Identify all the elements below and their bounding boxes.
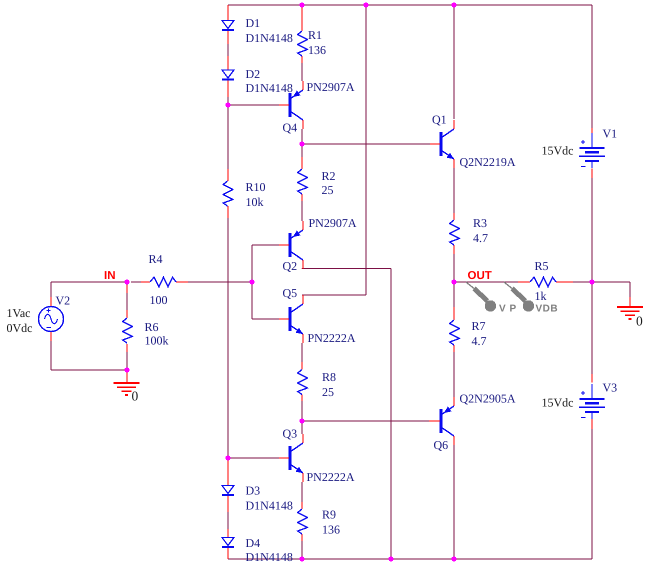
wire R5 to right rail node [573, 281, 592, 283]
wire right ground pin [629, 297, 631, 307]
wire R2 top pin [301, 157, 303, 169]
svg-text:136: 136 [322, 523, 340, 537]
svg-text:D1N4148: D1N4148 [246, 550, 293, 564]
wire Q6 base pin lead [429, 420, 440, 422]
wire R8 top pin [301, 362, 303, 370]
svg-text:R6: R6 [145, 320, 159, 334]
svg-text:Q3: Q3 [283, 427, 298, 441]
wire R1 to Q4 emitter [301, 63, 303, 81]
wire right column V1 top pin [591, 128, 593, 134]
wire R4 left pin [141, 281, 150, 283]
wire Q5 emitter to R8 [301, 343, 303, 362]
wire D3-D4 middle segment [227, 512, 229, 529]
wire R7 to Q6 emitter [453, 352, 455, 397]
svg-text:Q2N2219A: Q2N2219A [460, 155, 516, 169]
svg-text:R9: R9 [322, 508, 336, 522]
diode D2 [222, 70, 234, 80]
wire top rail to Q1 collector [453, 5, 455, 119]
svg-text:R8: R8 [322, 370, 336, 384]
wire bottom -15V rail [228, 558, 592, 560]
wire D2 to node A [227, 97, 229, 105]
voltage probe V marker at OUT [466, 282, 496, 312]
svg-text:4.7: 4.7 [472, 334, 487, 348]
svg-text:D1: D1 [246, 16, 261, 30]
svg-text:R2: R2 [322, 169, 336, 183]
ground symbol right (0) [617, 307, 643, 319]
voltage dB probe marker at OUT [504, 282, 534, 312]
wire right column V1 top lead [591, 5, 593, 128]
wire D4 cathode to bottom rail [227, 548, 229, 560]
svg-text:0: 0 [132, 389, 139, 404]
resistor R5 [530, 277, 556, 287]
ground symbol left (0) [114, 383, 140, 395]
wire x366 column up to top rail [365, 5, 367, 295]
svg-text:0: 0 [636, 314, 643, 329]
wire D4 anode pin [227, 529, 229, 538]
resistor R9 [298, 509, 308, 534]
wire R3 to OUT node [453, 254, 455, 282]
wire R9 bottom pin [301, 534, 303, 541]
svg-text:Q2: Q2 [283, 259, 298, 273]
svg-text:PN2907A: PN2907A [309, 216, 357, 230]
diode D1 [222, 21, 234, 31]
DC source V3 battery [579, 384, 605, 419]
svg-text:15Vdc: 15Vdc [542, 396, 574, 410]
wire right column between V1 and node [591, 178, 593, 282]
wire base bus Q2 to Q5 [251, 245, 253, 319]
diode D4 [222, 538, 234, 548]
svg-text:V1: V1 [603, 127, 618, 141]
junction top rail / x366 wire [363, 2, 368, 7]
svg-text:10k: 10k [246, 195, 264, 209]
svg-text:V3: V3 [603, 381, 618, 395]
wire OUT node to R5 [454, 281, 518, 283]
svg-text:1k: 1k [535, 289, 547, 303]
transistor Q4 PN2907A [279, 81, 303, 129]
svg-text:D1N4148: D1N4148 [246, 499, 293, 513]
wire D3 cathode pin [227, 495, 229, 512]
svg-text:R3: R3 [473, 216, 487, 230]
wire R7 top pin [453, 307, 455, 320]
wire R4 to base bus node [188, 281, 252, 283]
junction node B diode bias lower [225, 455, 230, 460]
transistor Q6 Q2N2905A [430, 397, 454, 445]
wire node C to Q1 base [302, 143, 430, 145]
wire node A down to R10 [227, 105, 229, 169]
wire Q6 collector to bottom rail [453, 445, 455, 559]
svg-text:IN: IN [104, 270, 116, 282]
wire V2 top pin [50, 297, 52, 307]
transistor Q3 PN2222A [279, 434, 303, 482]
AC source V2 [39, 307, 64, 332]
wire R1 bottom pin [301, 56, 303, 63]
wire node to right ground stub [592, 281, 630, 283]
junction node C Q4 collector / Q1 base [299, 141, 304, 146]
wire right column V3 bottom pin [591, 419, 593, 429]
svg-text:0Vdc: 0Vdc [7, 321, 33, 335]
wire left column top segment (to D1 anode) [227, 5, 229, 21]
wire right column V3 top pin [591, 374, 593, 383]
wire R1 top pin from top rail [301, 5, 303, 31]
wire R8 to node D [301, 401, 303, 421]
wire IN node to R4 [131, 281, 141, 283]
svg-text:D2: D2 [246, 67, 261, 81]
junction IN node [124, 279, 129, 284]
wire R5 left pin [518, 281, 530, 283]
svg-text:PN2222A: PN2222A [307, 470, 355, 484]
svg-text:1Vac: 1Vac [7, 306, 31, 320]
wire node D to Q3 collector [301, 421, 303, 434]
wire D2 cathode pin [227, 80, 229, 98]
transistor Q1 Q2N2219A [430, 120, 454, 168]
wire R7 bottom pin [453, 345, 455, 352]
wire R2 bottom pin [301, 194, 303, 201]
wire top +15V rail [228, 4, 592, 6]
wire Q2 base from bus [252, 244, 279, 246]
wire R10 top pin [227, 169, 229, 181]
svg-text:136: 136 [308, 43, 326, 57]
svg-text:Q4: Q4 [283, 121, 298, 135]
wire right column V3 to bottom rail [591, 429, 593, 559]
wire x390 column down to bottom rail [390, 269, 392, 560]
wire V2 top to IN rail [50, 282, 52, 297]
junction top rail / Q1 collector [451, 2, 456, 7]
wire node D to Q6 base [302, 420, 429, 422]
svg-text:Q2N2905A: Q2N2905A [460, 392, 516, 406]
wire node A to Q4 base [228, 104, 279, 106]
wire IN node down to R6 [126, 282, 128, 310]
svg-text:R5: R5 [535, 259, 549, 273]
wire Q3 emitter to R9 [301, 482, 303, 502]
resistor R1 [298, 31, 308, 56]
wire node C to R2 [301, 144, 303, 157]
wire Q5 base from bus [252, 318, 279, 320]
wire V2 bottom to ground rail [50, 341, 52, 370]
wire Q2 collector to x390 column [302, 268, 391, 270]
resistor R2 [298, 169, 308, 194]
junction node D R8 / Q6 base [299, 418, 304, 423]
svg-text:V2: V2 [56, 294, 71, 308]
junction top rail / R1 [299, 2, 304, 7]
wire R10 to node B long segment [227, 218, 229, 458]
wire node B to Q3 base [228, 457, 279, 459]
wire V2 bottom pin [50, 332, 52, 342]
svg-text:4.7: 4.7 [473, 231, 488, 245]
svg-text:Q5: Q5 [283, 286, 298, 300]
svg-text:OUT: OUT [468, 270, 492, 282]
wire right column V1 bottom pin [591, 169, 593, 179]
resistor R10 [223, 181, 233, 206]
wire node B to D3 anode [227, 459, 229, 486]
wire Q2 collector corner [301, 268, 303, 271]
wire V2 to ground node [51, 369, 127, 371]
wire Q1 emitter to R3 [453, 168, 455, 213]
wire R6 to ground node [126, 352, 128, 370]
wire OUT node to R7 [453, 282, 455, 307]
wire R5 right pin [556, 281, 573, 283]
DC source V1 battery [579, 133, 605, 168]
svg-text:15Vdc: 15Vdc [542, 144, 574, 158]
wire D2 anode pin [227, 56, 229, 70]
wire R6 bottom pin [126, 344, 128, 352]
resistor R6 [123, 318, 133, 343]
junction node A diode bias upper [225, 102, 230, 107]
resistor R8 [298, 370, 308, 395]
wire R8 bottom pin [301, 395, 303, 402]
resistor R7 [450, 320, 460, 345]
wire ground pin below node [126, 370, 128, 383]
junction bottom rail / x390 wire [388, 556, 393, 561]
wire R9 to bottom rail [301, 541, 303, 559]
svg-text:R1: R1 [308, 28, 322, 42]
junction V2 ground node [124, 367, 129, 372]
wire right column node to V3 [591, 282, 593, 374]
wire R4 right pin [176, 281, 188, 283]
resistor R4 [150, 277, 176, 287]
junction bottom rail / Q6 collector [451, 556, 456, 561]
transistor Q5 PN2222A [279, 295, 303, 343]
wire Q3 base pin lead [279, 457, 290, 459]
resistor R3 [450, 220, 460, 245]
svg-text:VDB: VDB [536, 304, 559, 315]
wire R3 bottom pin [453, 245, 455, 254]
svg-text:D1N4148: D1N4148 [246, 81, 293, 95]
wire D1-D2 middle segment [227, 44, 229, 56]
svg-text:25: 25 [322, 183, 334, 197]
wire Q5 collector to x366 column [302, 294, 366, 296]
wire R10 bottom pin [227, 206, 229, 218]
svg-text:Q6: Q6 [434, 438, 449, 452]
svg-text:V P: V P [499, 304, 517, 315]
svg-text:Q1: Q1 [432, 113, 447, 127]
wire Q4 base pin lead [279, 104, 290, 106]
svg-text:D1N4148: D1N4148 [246, 31, 293, 45]
junction base bus node [249, 279, 254, 284]
svg-text:D4: D4 [246, 536, 261, 550]
diode D3 [222, 486, 234, 496]
junction OUT node [451, 279, 456, 284]
wire R2 to Q2 emitter [301, 201, 303, 221]
wire R6 top pin [126, 310, 128, 318]
wire R6 top segment red [126, 285, 128, 293]
wire Q1 base pin lead [430, 143, 440, 145]
junction bottom rail / R9 [299, 556, 304, 561]
wire D1 cathode to D2 segment a [227, 30, 229, 44]
wire IN rail V2 to IN node [51, 281, 127, 283]
svg-text:PN2907A: PN2907A [307, 80, 355, 94]
svg-text:R4: R4 [149, 252, 163, 266]
wire R3 top pin [453, 213, 455, 220]
svg-text:100k: 100k [145, 334, 169, 348]
svg-text:PN2222A: PN2222A [308, 331, 356, 345]
svg-text:R7: R7 [472, 319, 486, 333]
junction right rail / R5 [589, 279, 594, 284]
svg-text:R10: R10 [246, 180, 266, 194]
wire R9 top pin [301, 502, 303, 509]
wire right ground stub down [629, 282, 631, 297]
transistor Q2 PN2907A [279, 221, 303, 269]
svg-text:25: 25 [322, 385, 334, 399]
svg-text:D3: D3 [246, 484, 261, 498]
wire Q4 collector to node C [301, 129, 303, 144]
svg-text:100: 100 [150, 293, 168, 307]
